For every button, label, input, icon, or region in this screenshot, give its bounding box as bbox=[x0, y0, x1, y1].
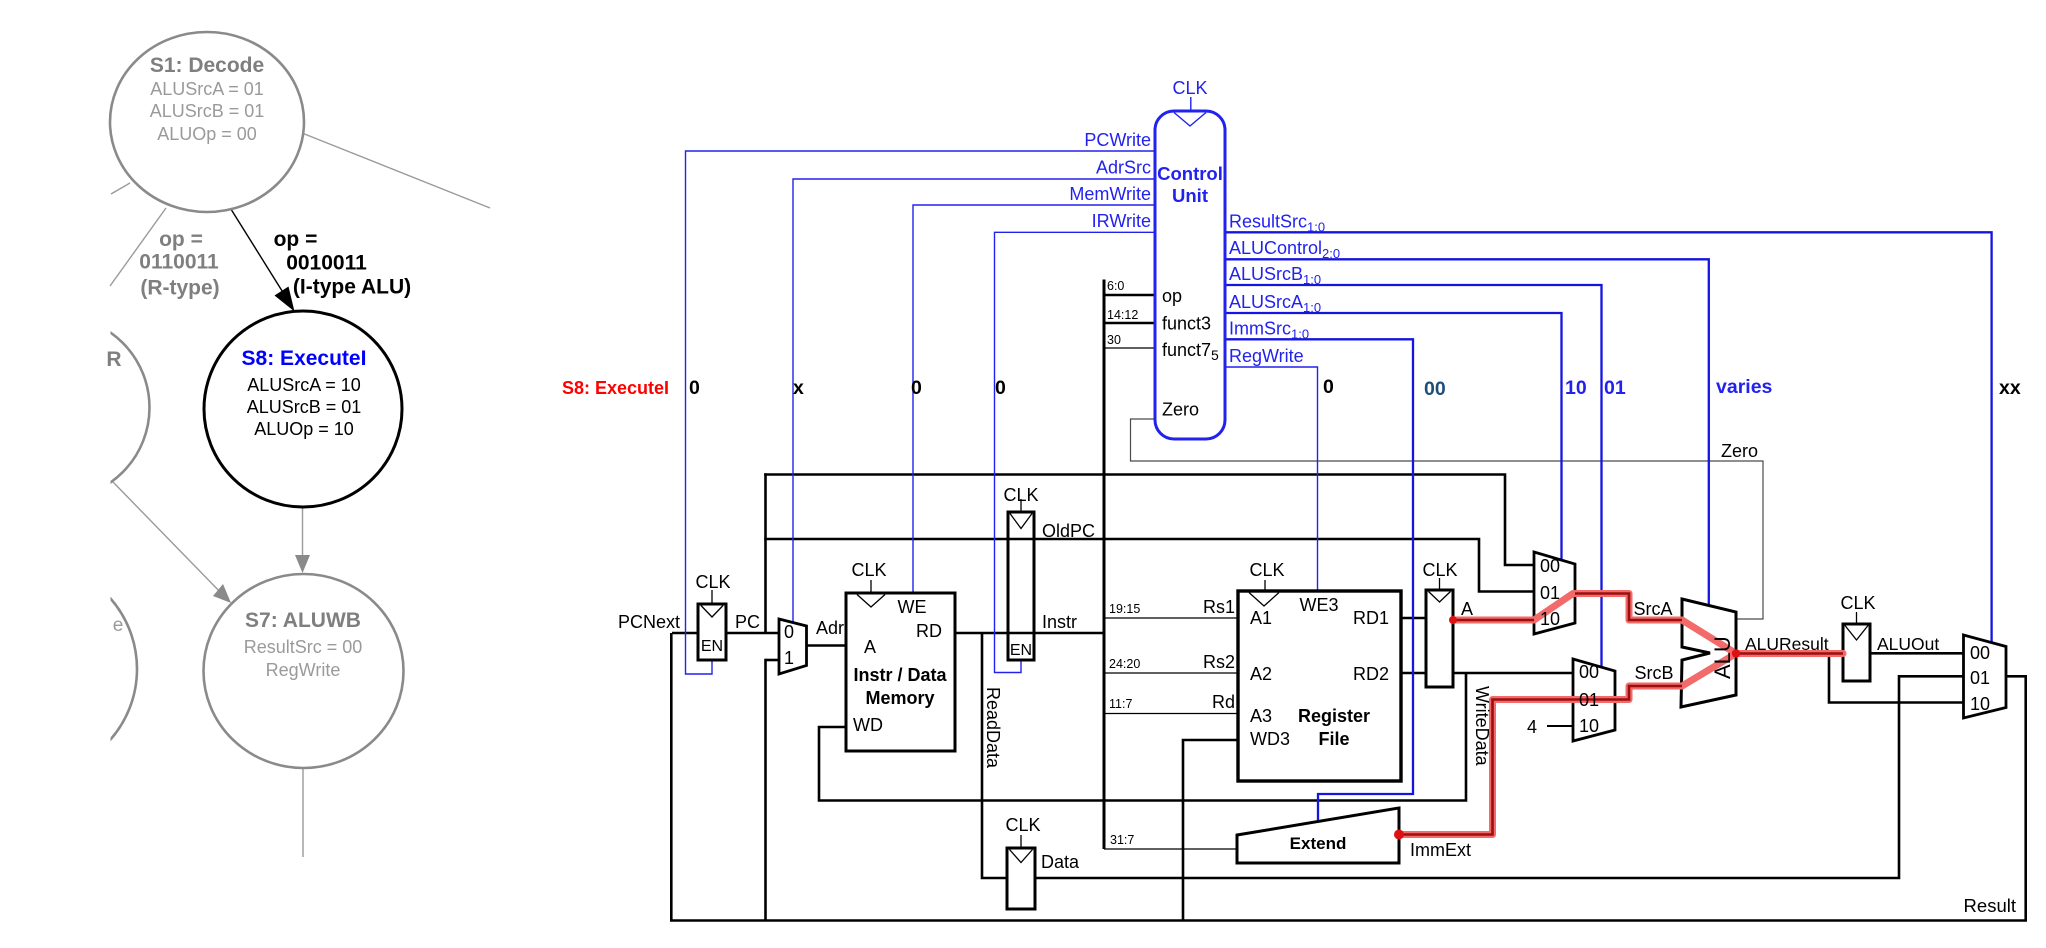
svg-text:19:15: 19:15 bbox=[1109, 602, 1140, 616]
svg-text:EN: EN bbox=[1010, 642, 1032, 659]
svg-text:RD2: RD2 bbox=[1353, 664, 1389, 684]
svg-text:A2: A2 bbox=[1250, 664, 1272, 684]
svg-text:Data: Data bbox=[1041, 852, 1080, 872]
svg-text:10: 10 bbox=[1579, 716, 1599, 736]
svg-text:CLK: CLK bbox=[1005, 815, 1040, 835]
svg-text:Rs2: Rs2 bbox=[1203, 652, 1235, 672]
svg-text:x: x bbox=[793, 377, 804, 399]
svg-text:CLK: CLK bbox=[1422, 560, 1457, 580]
svg-text:ALUOut: ALUOut bbox=[1877, 634, 1939, 654]
svg-text:10: 10 bbox=[1970, 694, 1990, 714]
svg-text:op =: op = bbox=[274, 228, 318, 251]
svg-text:Zero: Zero bbox=[1162, 400, 1199, 420]
svg-text:CLK: CLK bbox=[1249, 560, 1284, 580]
svg-text:CLK: CLK bbox=[695, 572, 730, 592]
svg-text:6:0: 6:0 bbox=[1107, 279, 1124, 293]
svg-text:00: 00 bbox=[1970, 643, 1990, 663]
svg-text:AdrSrc: AdrSrc bbox=[1096, 158, 1151, 178]
svg-text:ALUSrcA = 01: ALUSrcA = 01 bbox=[150, 79, 264, 99]
svg-text:1: 1 bbox=[784, 648, 794, 668]
svg-text:A: A bbox=[864, 637, 876, 657]
svg-text:ResultSrc = 00: ResultSrc = 00 bbox=[244, 637, 363, 657]
svg-text:01: 01 bbox=[1540, 583, 1560, 603]
svg-text:WE: WE bbox=[898, 597, 927, 617]
svg-text:14:12: 14:12 bbox=[1107, 308, 1138, 322]
svg-text:Unit: Unit bbox=[1172, 185, 1208, 206]
svg-text:01: 01 bbox=[1604, 377, 1626, 399]
svg-text:WE3: WE3 bbox=[1299, 595, 1338, 615]
svg-text:Memory: Memory bbox=[865, 688, 934, 708]
svg-text:CLK: CLK bbox=[1840, 593, 1875, 613]
svg-text:0: 0 bbox=[911, 377, 922, 399]
svg-text:Result: Result bbox=[1964, 895, 2016, 916]
svg-text:(R-type): (R-type) bbox=[140, 277, 219, 300]
svg-text:S8: ExecuteI: S8: ExecuteI bbox=[562, 378, 669, 398]
svg-text:SrcA: SrcA bbox=[1633, 599, 1672, 619]
svg-text:00: 00 bbox=[1540, 556, 1560, 576]
svg-text:01: 01 bbox=[1579, 690, 1599, 710]
svg-text:01: 01 bbox=[1970, 668, 1990, 688]
svg-text:PC: PC bbox=[735, 612, 760, 632]
svg-text:File: File bbox=[1318, 729, 1349, 749]
svg-text:RegWrite: RegWrite bbox=[266, 660, 341, 680]
svg-text:IRWrite: IRWrite bbox=[1092, 211, 1151, 231]
svg-text:ALUOp = 10: ALUOp = 10 bbox=[254, 419, 354, 439]
svg-text:Zero: Zero bbox=[1721, 441, 1758, 461]
svg-text:4: 4 bbox=[1527, 717, 1537, 737]
svg-text:0: 0 bbox=[689, 377, 700, 399]
svg-text:Control: Control bbox=[1157, 163, 1223, 184]
svg-text:ALUResult: ALUResult bbox=[1745, 634, 1829, 654]
svg-text:30: 30 bbox=[1107, 333, 1121, 347]
svg-text:S1: Decode: S1: Decode bbox=[150, 54, 264, 77]
svg-text:Adr: Adr bbox=[816, 618, 844, 638]
svg-text:op: op bbox=[1162, 286, 1182, 306]
svg-text:WriteData: WriteData bbox=[1472, 686, 1492, 767]
svg-text:0: 0 bbox=[1323, 376, 1334, 398]
svg-text:10: 10 bbox=[1565, 377, 1587, 399]
svg-text:Instr / Data: Instr / Data bbox=[853, 665, 947, 685]
svg-text:A1: A1 bbox=[1250, 608, 1272, 628]
svg-text:R: R bbox=[106, 348, 121, 371]
svg-text:SrcB: SrcB bbox=[1634, 663, 1673, 683]
svg-text:10: 10 bbox=[1540, 609, 1560, 629]
svg-text:0: 0 bbox=[784, 622, 794, 642]
svg-text:varies: varies bbox=[1716, 376, 1773, 398]
svg-text:RD1: RD1 bbox=[1353, 608, 1389, 628]
svg-text:funct75: funct75 bbox=[1162, 340, 1219, 363]
svg-text:A: A bbox=[1461, 599, 1473, 619]
svg-text:ALUSrcA = 10: ALUSrcA = 10 bbox=[247, 375, 361, 395]
svg-text:31:7: 31:7 bbox=[1110, 833, 1134, 847]
svg-text:op =: op = bbox=[159, 228, 203, 251]
svg-text:Instr: Instr bbox=[1042, 612, 1077, 632]
svg-text:Rs1: Rs1 bbox=[1203, 597, 1235, 617]
svg-text:WD3: WD3 bbox=[1250, 729, 1290, 749]
svg-text:ImmExt: ImmExt bbox=[1410, 840, 1471, 860]
svg-text:0110011: 0110011 bbox=[139, 251, 219, 274]
svg-text:ReadData: ReadData bbox=[983, 687, 1003, 769]
svg-text:A3: A3 bbox=[1250, 706, 1272, 726]
svg-text:ALU: ALU bbox=[1710, 636, 1735, 679]
svg-text:xx: xx bbox=[1999, 377, 2021, 399]
svg-text:11:7: 11:7 bbox=[1109, 697, 1132, 711]
svg-text:ALUSrcB = 01: ALUSrcB = 01 bbox=[150, 101, 265, 121]
svg-text:S8: ExecuteI: S8: ExecuteI bbox=[242, 347, 367, 370]
svg-text:e: e bbox=[113, 615, 124, 636]
svg-text:CLK: CLK bbox=[1003, 485, 1038, 505]
svg-text:00: 00 bbox=[1579, 662, 1599, 682]
svg-text:funct3: funct3 bbox=[1162, 314, 1211, 334]
svg-text:ALUOp = 00: ALUOp = 00 bbox=[157, 124, 257, 144]
svg-text:(I-type ALU): (I-type ALU) bbox=[293, 276, 411, 299]
svg-text:CLK: CLK bbox=[851, 560, 886, 580]
svg-text:EN: EN bbox=[701, 638, 723, 655]
svg-text:MemWrite: MemWrite bbox=[1069, 184, 1151, 204]
svg-text:S7: ALUWB: S7: ALUWB bbox=[245, 609, 361, 632]
svg-text:Register: Register bbox=[1298, 706, 1370, 726]
svg-text:RD: RD bbox=[916, 621, 942, 641]
svg-text:WD: WD bbox=[853, 715, 883, 735]
svg-text:Extend: Extend bbox=[1290, 834, 1347, 853]
svg-text:RegWrite: RegWrite bbox=[1229, 346, 1304, 366]
svg-text:24:20: 24:20 bbox=[1109, 657, 1140, 671]
svg-text:PCNext: PCNext bbox=[618, 612, 680, 632]
svg-text:00: 00 bbox=[1424, 378, 1446, 400]
svg-text:ALUSrcB = 01: ALUSrcB = 01 bbox=[247, 397, 362, 417]
svg-text:0: 0 bbox=[995, 377, 1006, 399]
svg-text:Rd: Rd bbox=[1212, 692, 1235, 712]
svg-text:CLK: CLK bbox=[1172, 78, 1207, 98]
svg-text:0010011: 0010011 bbox=[286, 252, 367, 275]
svg-text:PCWrite: PCWrite bbox=[1084, 130, 1151, 150]
svg-text:OldPC: OldPC bbox=[1042, 521, 1095, 541]
